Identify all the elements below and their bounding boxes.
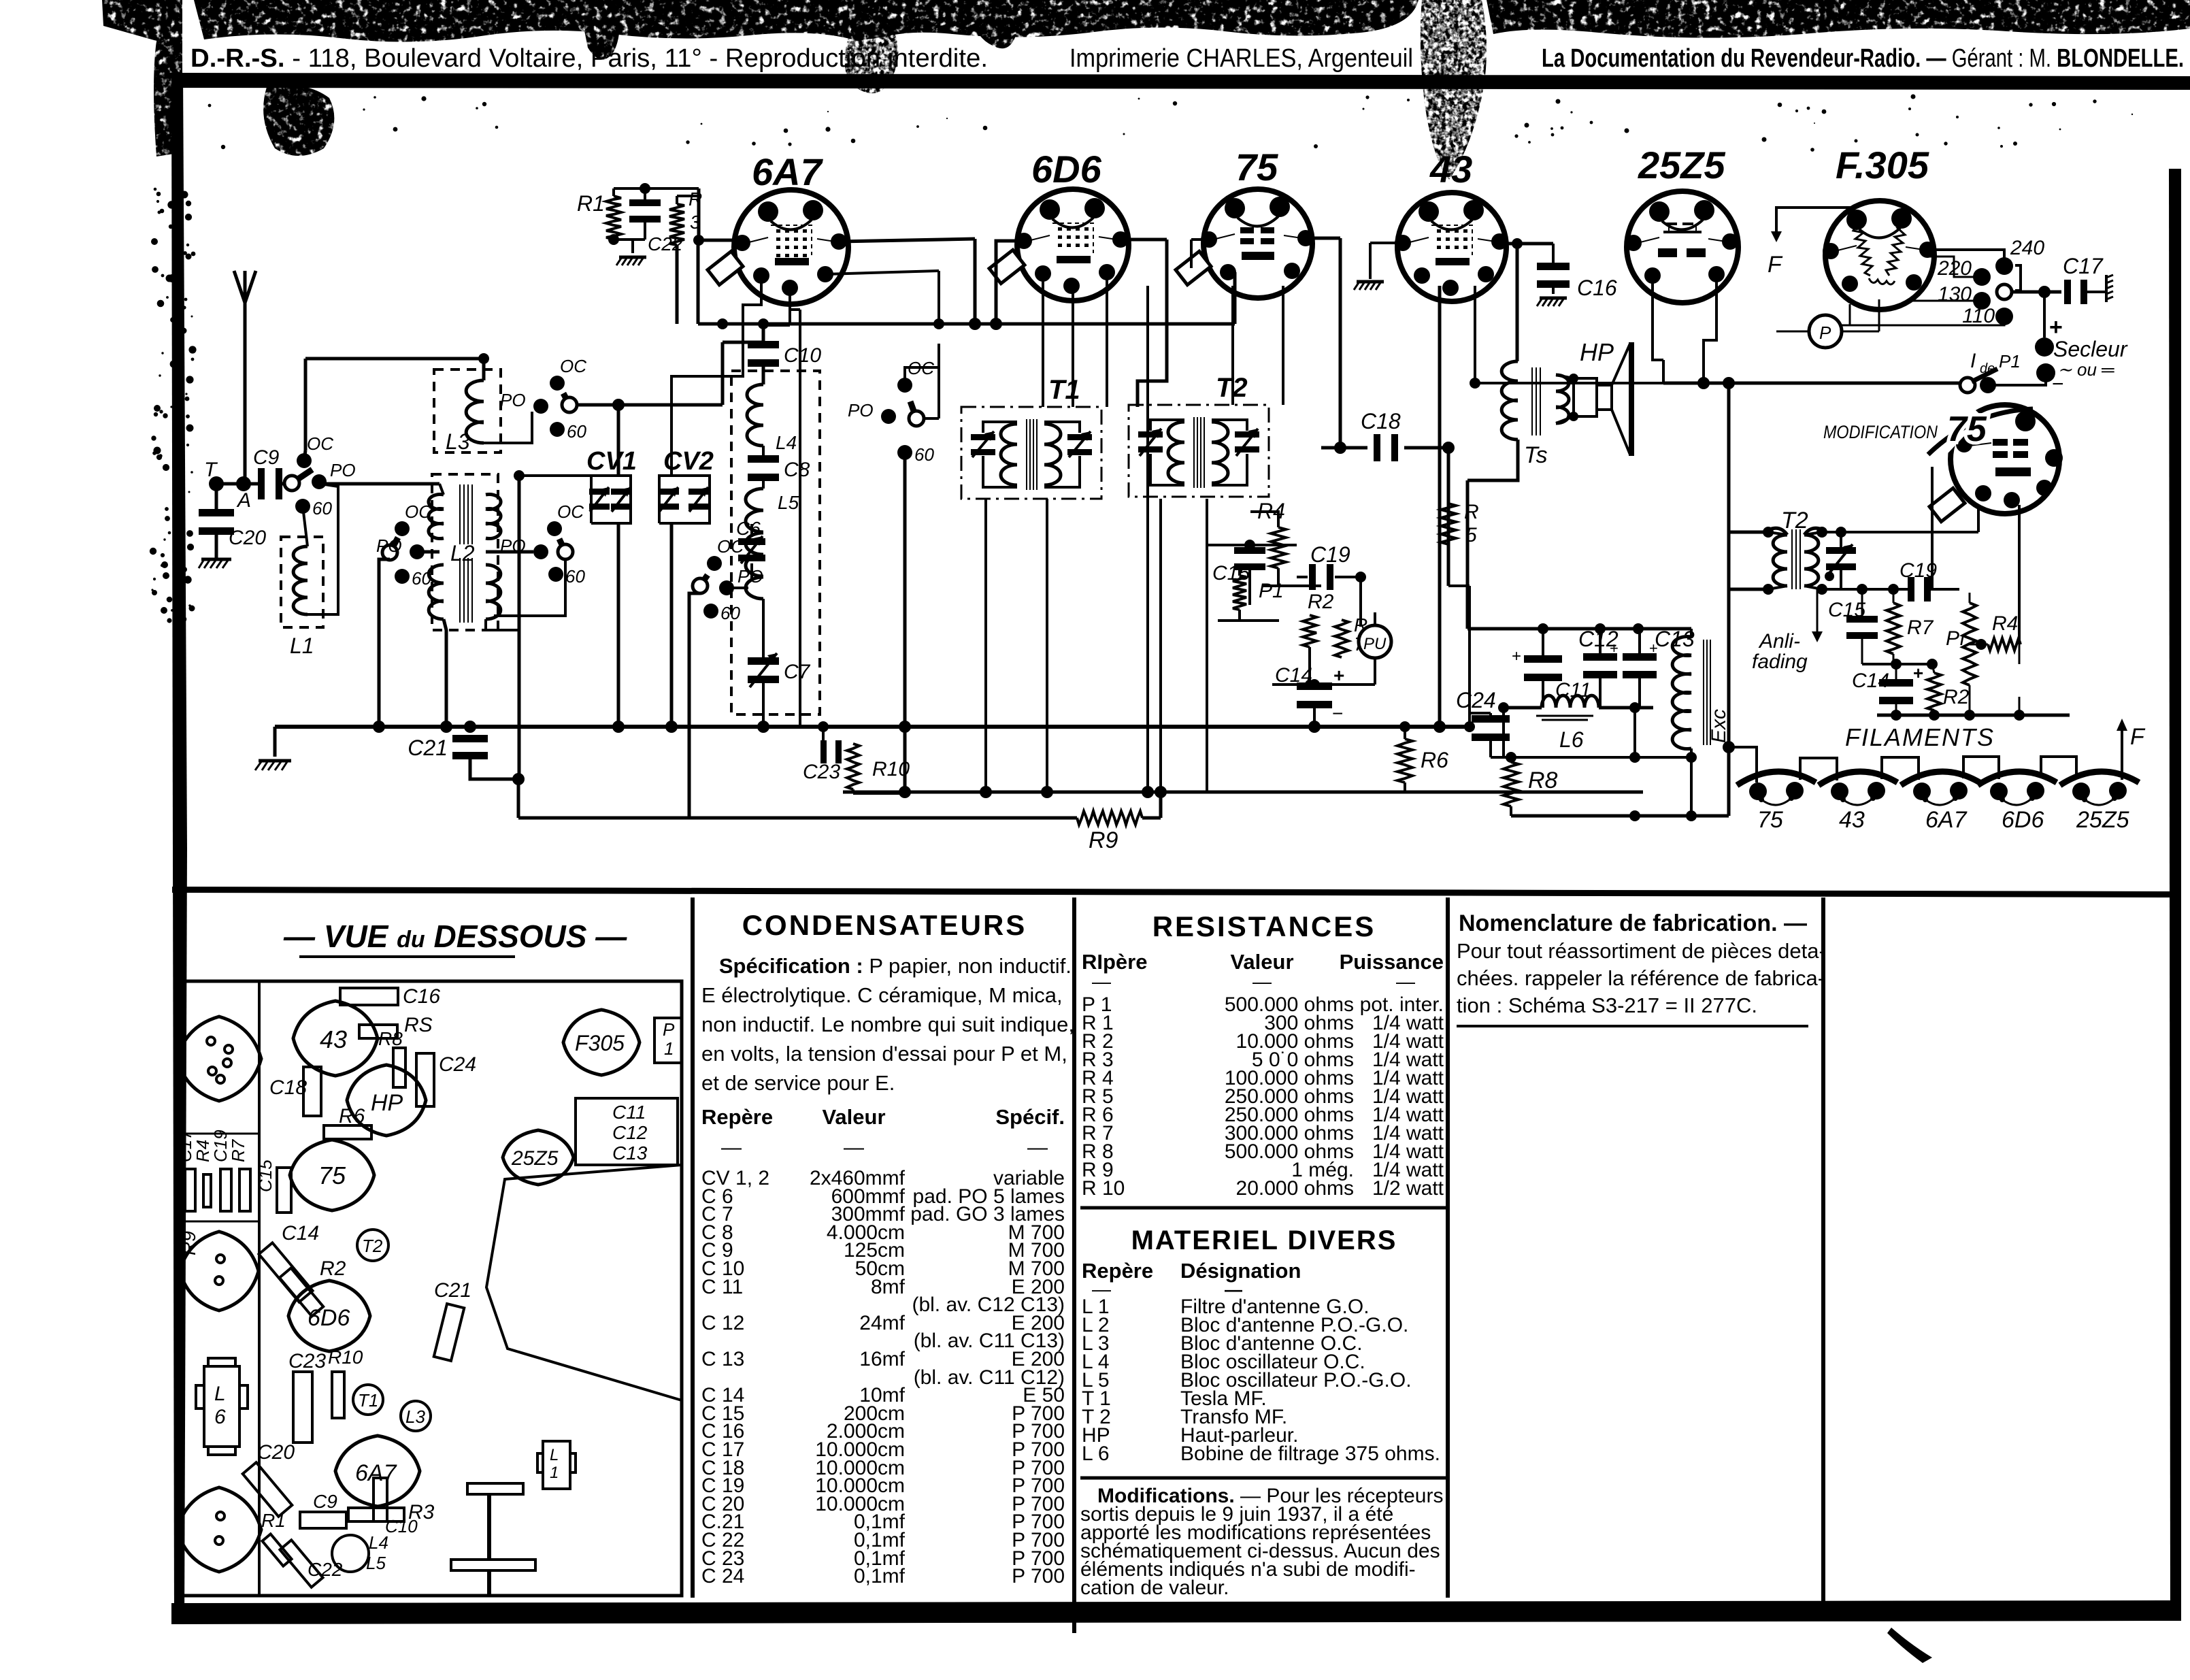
wire x2157 drop	[1466, 480, 1470, 629]
wire C11-13 leads	[1543, 629, 1640, 708]
svg-text:Pı: Pı	[1946, 627, 1965, 650]
svg-text:C17: C17	[2063, 254, 2104, 278]
svg-text:PO: PO	[376, 536, 402, 556]
ground (43 grid)	[1354, 282, 1384, 290]
page frame left border	[171, 73, 187, 1624]
svg-text:R10: R10	[872, 758, 910, 780]
svg-text:+: +	[1512, 647, 1521, 665]
wire T2mod leads	[1729, 527, 1827, 595]
node T	[204, 459, 224, 491]
tube 25Z5	[1625, 144, 1738, 303]
svg-text:R8: R8	[1528, 768, 1558, 793]
wire to mains +	[2043, 292, 2046, 337]
wire C22 link	[644, 188, 646, 240]
svg-text:CONDENSATEURS: CONDENSATEURS	[742, 909, 1027, 941]
potentiometer P1 (mod)	[1946, 603, 1976, 685]
capacitor C24	[1456, 688, 1510, 741]
wire C10 leads	[763, 325, 790, 384]
coil L3	[466, 380, 484, 443]
voltage tap 130	[1938, 283, 1991, 310]
wire L2 bottom-left drop	[444, 619, 446, 727]
wire F riser	[2117, 719, 2127, 780]
transformer L2 lower core	[460, 558, 472, 623]
bus y1202	[518, 779, 1077, 818]
wire C7 drop	[762, 677, 765, 727]
filament 6A7	[1901, 772, 1980, 833]
grid cap 75	[1176, 251, 1211, 284]
wire filament jumper 1	[1800, 758, 1837, 780]
tube 6D6	[1016, 148, 1129, 301]
svg-text:OC: OC	[560, 356, 586, 376]
slug C18 (vue)	[269, 1067, 321, 1116]
wire T1 drops	[986, 499, 1047, 792]
switch S4 (antenna OC)	[500, 356, 586, 442]
wire x2538 long drop	[1727, 383, 1731, 816]
capacitor C20	[199, 509, 266, 549]
wire C9 to switch	[276, 482, 286, 486]
box L1 (vue)	[537, 1441, 576, 1489]
svg-text:F: F	[1768, 252, 1783, 278]
capacitor C7 (padding)	[748, 653, 811, 687]
wire Ts riser	[1516, 244, 1519, 361]
svg-text:C10: C10	[385, 1516, 418, 1536]
svg-text:PO: PO	[500, 390, 526, 410]
wire L2 in	[439, 484, 444, 495]
svg-text:R9: R9	[1089, 827, 1118, 853]
coil L1	[293, 546, 308, 614]
resistor R4	[1257, 499, 1286, 568]
label R9 (vue)	[178, 1231, 199, 1255]
tube 75 (modification)	[1941, 405, 2063, 514]
svg-text:C 13: C 13	[701, 1348, 744, 1370]
mains terminal +	[2035, 337, 2054, 357]
wire x1380 drop	[933, 271, 944, 329]
svg-text:P1: P1	[1259, 580, 1284, 602]
svg-text:FILAMENTS: FILAMENTS	[1845, 723, 1995, 751]
capacitor C19	[1309, 542, 1350, 590]
wire y1164 to R6/bus-extension	[1642, 791, 1644, 793]
svg-text:Repère: Repère	[701, 1105, 773, 1129]
svg-text:6D6: 6D6	[308, 1305, 350, 1331]
page frame right border	[2169, 169, 2181, 1621]
svg-text:C9: C9	[313, 1491, 337, 1512]
slug C24 (vue)	[416, 1053, 476, 1106]
svg-text:non inductif. Le nombre qui su: non inductif. Le nombre qui suit indique…	[701, 1012, 1074, 1036]
svg-text:F305: F305	[575, 1031, 625, 1055]
svg-text:60: 60	[914, 444, 934, 465]
left margin specks (decorative)	[150, 95, 2133, 623]
wire L1 bottom return	[308, 484, 338, 614]
CONDENSATEURS table	[701, 909, 1074, 1587]
chassis left strip divider	[258, 981, 261, 1596]
svg-text:P: P	[1819, 323, 1831, 343]
svg-text:C24: C24	[439, 1053, 476, 1076]
svg-text:R 10: R 10	[1082, 1177, 1125, 1200]
slug C22 (vue)	[280, 1540, 342, 1587]
svg-text:C9: C9	[253, 446, 280, 469]
IF transformer T2	[1129, 373, 1269, 497]
svg-text:T2: T2	[362, 1236, 383, 1256]
capacitor C18	[1361, 409, 1401, 461]
capacitor C13 (electrolytic)	[1623, 627, 1695, 678]
switch S2 (L2 primary)	[376, 501, 431, 589]
wire A to C9	[216, 482, 264, 486]
svg-text:L: L	[214, 1383, 226, 1405]
svg-text:A: A	[236, 489, 251, 512]
slug R6 (vue)	[324, 1105, 371, 1139]
coil L6 (filter choke)	[1536, 695, 1599, 752]
wire 6A7 plate right	[839, 239, 975, 242]
svg-text:130: 130	[1938, 283, 1972, 306]
svg-text:L6: L6	[1559, 727, 1584, 752]
dial bar lower (vue)	[451, 1560, 535, 1595]
svg-text:L1: L1	[290, 633, 314, 658]
wire selector to C17	[2012, 286, 2061, 298]
svg-text:CV1: CV1	[586, 447, 637, 476]
wire R2 mod	[1932, 664, 1934, 715]
transformer Ts primary	[1502, 361, 1518, 440]
capacitor C9	[253, 446, 282, 499]
wire R6	[1399, 721, 1410, 792]
svg-text:C13: C13	[612, 1142, 648, 1164]
wire x1970 drop	[1339, 238, 1342, 448]
wire 110 tap	[1842, 316, 2004, 325]
svg-text:R2: R2	[320, 1257, 346, 1280]
socket 43 (vue)	[293, 1001, 378, 1076]
contact hatch (C17)	[2106, 275, 2113, 302]
svg-text:60: 60	[312, 498, 332, 518]
can L3 (vue)	[401, 1401, 431, 1431]
capacitor C15	[1212, 547, 1265, 584]
wire Ts primary bottom	[1467, 440, 1518, 480]
svg-text:1/2 watt: 1/2 watt	[1372, 1177, 1444, 1200]
wire L6 line	[1498, 702, 1653, 713]
transformer L2 upper primary	[429, 495, 444, 539]
svg-text:C23: C23	[288, 1350, 326, 1372]
svg-text:—: —	[721, 1136, 742, 1159]
svg-text:+: +	[1333, 665, 1344, 686]
svg-text:8mf: 8mf	[871, 1276, 906, 1298]
label F (filament)	[2130, 724, 2146, 750]
anti-fading arrow	[1812, 589, 1823, 642]
svg-text:R8: R8	[378, 1028, 403, 1049]
label MODIFICATION	[1823, 422, 1938, 442]
strip divider 2	[179, 1221, 259, 1223]
wire P link	[1776, 299, 1879, 331]
slug C10 (vue)	[374, 1478, 418, 1536]
column divider 3	[1446, 897, 1450, 1598]
svg-text:+: +	[1913, 663, 1923, 683]
svg-text:R2: R2	[1308, 591, 1334, 613]
socket 6A7 (vue)	[335, 1436, 420, 1506]
svg-text:de: de	[1980, 361, 1995, 376]
label Anti-fading	[1752, 630, 1808, 673]
svg-text:110: 110	[1962, 305, 1995, 327]
switch S1 (OC/PO/60)	[284, 433, 356, 518]
slug C9 (vue)	[300, 1491, 346, 1528]
wire C20 to ground	[215, 533, 218, 558]
transformer L2 lower secondary	[486, 565, 501, 619]
wire 43 pin drops	[1440, 286, 1663, 727]
wire x1062 riser	[721, 342, 725, 405]
svg-text:Nomenclature de fabrication. —: Nomenclature de fabrication. —	[1459, 910, 1807, 936]
svg-text:C23: C23	[803, 761, 840, 783]
svg-text:Anli-: Anli-	[1758, 630, 1800, 653]
wire R3 top	[677, 196, 699, 204]
svg-text:—: —	[1092, 971, 1111, 992]
wire C17 out	[2083, 291, 2106, 293]
svg-text:HP: HP	[371, 1090, 403, 1116]
wire L2 sec to PO	[486, 550, 533, 554]
slug R5 (vue)	[359, 1014, 433, 1038]
capacitor C19 (mod)	[1899, 559, 1937, 602]
ground (C16)	[1537, 298, 1567, 306]
column divider 2	[1072, 897, 1076, 1633]
svg-text:C20: C20	[257, 1441, 295, 1464]
socket 2-pin (vue)	[180, 1232, 259, 1311]
wire T2 drops	[1161, 499, 1207, 792]
voltage tap 240	[1995, 237, 2044, 275]
resistor R4 (mod)	[1988, 612, 2021, 650]
wire x2210	[1502, 708, 1505, 757]
svg-text:1: 1	[550, 1464, 559, 1482]
svg-text:chées. rappeler la référence d: chées. rappeler la référence de fabrica-	[1457, 966, 1825, 990]
svg-text:HP: HP	[1580, 338, 1614, 366]
speaker HP	[1574, 338, 1631, 456]
wire S4 to CV1	[577, 399, 723, 411]
wire S6 drop	[689, 593, 700, 818]
node A	[236, 476, 251, 512]
svg-text:∼ ou ═: ∼ ou ═	[2057, 359, 2114, 380]
wire filament jumper 4	[2041, 757, 2076, 778]
svg-text:75: 75	[1235, 146, 1278, 188]
slug C16 (vue)	[340, 985, 440, 1008]
svg-text:C16: C16	[1577, 276, 1617, 300]
svg-text:R1: R1	[261, 1510, 286, 1531]
svg-text:La Documentation du Revendeur-: La Documentation du Revendeur-Radio. — G…	[1542, 44, 2184, 73]
column divider 4	[1821, 897, 1825, 1616]
svg-text:RESISTANCES: RESISTANCES	[1152, 910, 1376, 942]
wire trimmer leads	[1840, 532, 1842, 589]
wire CV2 drop	[670, 523, 674, 727]
socket 5-pin (vue)	[177, 1017, 261, 1101]
svg-text:Valeur: Valeur	[822, 1105, 885, 1129]
wire R8	[1506, 752, 1516, 816]
wire R4 bottom	[1263, 568, 1321, 586]
svg-text:75: 75	[318, 1162, 346, 1189]
ground (C22)	[616, 257, 646, 265]
capacitor C8	[748, 455, 810, 481]
slug C14 (vue)	[259, 1222, 319, 1302]
transformer L2 upper secondary	[486, 495, 501, 539]
socket HP (vue)	[347, 1065, 426, 1136]
resistor R7 (mod)	[1887, 603, 1934, 654]
resistor R10	[847, 744, 910, 789]
wire x1026 drop	[697, 240, 700, 324]
wire 60 to L1	[303, 506, 308, 546]
bottom-right page curl mark	[1887, 1628, 1932, 1663]
wire 75 plate right	[1312, 237, 1340, 240]
svg-text:25Z5: 25Z5	[1638, 144, 1725, 186]
wire R2	[1308, 647, 1311, 685]
wire y503 bus	[723, 341, 762, 344]
svg-text:+: +	[1649, 640, 1658, 657]
wire antenna top bus	[305, 353, 489, 364]
wire T to C20	[215, 484, 218, 511]
svg-text:F: F	[2130, 724, 2146, 750]
wire 6D6 grid lead	[990, 241, 1017, 330]
wire F305 pin drops	[1850, 301, 1910, 325]
wire L3 top riser	[482, 359, 486, 380]
svg-text:43: 43	[1429, 148, 1472, 191]
wire S2 drop	[379, 559, 390, 727]
ground (main bus)	[255, 727, 291, 770]
svg-text:Spécification : P papier, non: Spécification : P papier, non inductif.	[701, 954, 1072, 978]
capacitor C10	[748, 341, 821, 367]
selector wiper	[1997, 265, 2021, 299]
resistor R6	[1397, 739, 1448, 783]
svg-text:R2: R2	[1943, 686, 1970, 708]
svg-text:L3: L3	[405, 1406, 425, 1427]
svg-text:L5: L5	[366, 1553, 386, 1573]
svg-text:RIpère: RIpère	[1082, 950, 1147, 974]
svg-text:Valeur: Valeur	[1230, 950, 1293, 974]
svg-text:60: 60	[565, 566, 585, 587]
svg-text:6A7: 6A7	[355, 1460, 397, 1486]
wire y1113	[1491, 752, 1697, 763]
svg-text:C8: C8	[784, 459, 810, 481]
svg-text:75: 75	[1757, 807, 1783, 833]
meter PU	[1359, 625, 1391, 658]
filament 43	[1819, 772, 1897, 833]
svg-text:C14: C14	[1852, 670, 1889, 692]
wire 25Z5 cathode drops	[1653, 276, 1716, 383]
coil Exc (field coil)	[1672, 637, 1730, 749]
svg-text:— VUE du DESSOUS —: — VUE du DESSOUS —	[283, 919, 627, 954]
svg-text:C11: C11	[612, 1102, 646, 1123]
svg-text:43: 43	[320, 1025, 347, 1053]
separator line above tables	[172, 887, 2177, 897]
meter P	[1809, 315, 1842, 348]
wire 43 grid ground	[1370, 243, 1397, 279]
wire R1 top	[614, 183, 699, 196]
can L4 L5 (vue)	[332, 1532, 388, 1573]
socket 6D6 (vue)	[288, 1281, 370, 1351]
svg-text:tion : Schéma S3-217 = II 277C: tion : Schéma S3-217 = II 277C.	[1457, 993, 1757, 1017]
svg-text:L: L	[550, 1446, 559, 1464]
mod bottom bus	[1877, 710, 2070, 721]
label ~ou=	[2057, 359, 2114, 380]
voltage tap 110	[1962, 305, 2013, 327]
antenna	[234, 271, 256, 484]
svg-text:L2: L2	[450, 541, 475, 565]
wire S5 riser	[905, 367, 939, 385]
wire CV1 drop	[617, 523, 620, 727]
slug C21 (vue)	[434, 1279, 471, 1361]
slug R1 (vue)	[261, 1510, 292, 1566]
wire C6 link	[750, 524, 753, 580]
wire R9 right	[1142, 792, 1161, 818]
wire P1 mod top	[1969, 593, 1971, 603]
capacitor C14 (mod)	[1852, 663, 1923, 724]
svg-text:P1: P1	[1999, 351, 2021, 372]
slug R3 (vue)	[348, 1501, 435, 1523]
svg-text:C22: C22	[308, 1559, 343, 1580]
svg-text:L4: L4	[776, 432, 797, 453]
wire S3 return	[494, 559, 565, 616]
wire 6D6 pin drops	[1043, 274, 1107, 407]
label Secteur	[2053, 337, 2128, 361]
svg-text:C15: C15	[255, 1159, 276, 1192]
svg-text:T2: T2	[1216, 373, 1248, 403]
svg-text:T: T	[204, 459, 218, 481]
wire S6 po link	[727, 587, 748, 589]
resistor R5	[1441, 501, 1479, 546]
wire C21 jog	[470, 755, 525, 785]
slug C15 (vue)	[255, 1159, 291, 1213]
trimmer capacitor (mod T2)	[1825, 544, 1856, 581]
capacitor C23	[803, 740, 842, 783]
wire C19	[1297, 572, 1366, 627]
tube 6A7	[734, 150, 848, 304]
wire mains switch line	[1663, 360, 1961, 389]
wire CV2 top link	[671, 324, 743, 476]
IF transformer T1	[961, 375, 1101, 499]
wire L3 bottom	[484, 412, 532, 443]
resistor R1	[577, 191, 621, 240]
svg-text:C19: C19	[1310, 542, 1350, 567]
socket F305 (vue)	[563, 1010, 640, 1075]
label Ts	[1524, 442, 1548, 468]
svg-text:OC: OC	[557, 501, 584, 522]
wire PU mod drop	[2019, 697, 2021, 715]
wire 43 plate right	[1506, 238, 1553, 249]
svg-text:P: P	[663, 1019, 675, 1040]
wire 130 tap	[1910, 300, 1982, 302]
wire C14	[1272, 679, 1375, 727]
socket 2-pin lower (vue)	[177, 1487, 261, 1572]
capacitor C17	[2063, 254, 2104, 304]
wire 6A7 lower-left	[743, 276, 761, 324]
svg-text:R6: R6	[339, 1105, 365, 1127]
switch S3 (L2 secondary)	[500, 501, 585, 587]
svg-text:6D6: 6D6	[1031, 148, 1102, 191]
wire L4-C8	[762, 446, 765, 489]
wire x1687 drop	[1146, 286, 1149, 792]
svg-text:20.000 ohms: 20.000 ohms	[1236, 1177, 1354, 1200]
svg-text:C14: C14	[282, 1222, 319, 1245]
wire x1433 drop	[969, 239, 981, 330]
svg-text:T1: T1	[1048, 375, 1080, 405]
svg-text:R1: R1	[577, 191, 605, 216]
ink blotch top-center	[845, 16, 899, 93]
coil L1 box	[281, 537, 323, 658]
capacitor C14	[1275, 664, 1344, 724]
svg-text:240: 240	[2010, 237, 2044, 259]
strip divider 1	[179, 1133, 259, 1135]
wire long drop x763	[518, 476, 521, 779]
wire OC riser	[304, 359, 305, 461]
wire filament feed	[1723, 741, 1757, 783]
svg-text:C7: C7	[784, 661, 811, 683]
wire R5 bottom	[1448, 544, 1475, 732]
wire C24	[1470, 713, 1491, 757]
svg-text:R7: R7	[228, 1138, 248, 1162]
svg-text:C10: C10	[784, 344, 821, 367]
svg-text:Bobine de filtrage 375 ohms.: Bobine de filtrage 375 ohms.	[1180, 1443, 1440, 1465]
svg-text:I: I	[1970, 350, 1976, 372]
wire CV1 riser	[617, 405, 620, 476]
